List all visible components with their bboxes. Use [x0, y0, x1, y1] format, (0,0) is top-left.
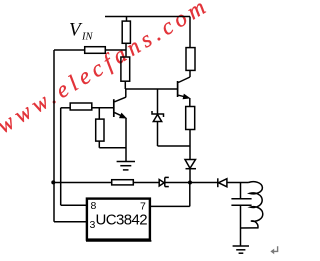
wire pin8 lead	[61, 204, 87, 206]
wire Q1 emitter down	[125, 118, 127, 162]
wire stub top rail to R1	[126, 17, 128, 21]
svg-text:8: 8	[91, 200, 97, 212]
resistor R2	[121, 57, 130, 81]
node junction dot output	[188, 181, 192, 185]
wire R6 to emitter	[99, 147, 126, 149]
svg-text:www.elecfans.com: www.elecfans.com	[0, 0, 210, 138]
resistor R6	[96, 108, 104, 148]
wire R2 bottom stub	[124, 82, 126, 89]
resistor R3	[186, 48, 195, 71]
wire R1 to R2	[125, 44, 127, 57]
resistor R7	[112, 180, 134, 185]
wire left rail	[53, 50, 55, 222]
resistor R4	[186, 107, 195, 130]
resistor R5	[70, 103, 92, 110]
resistor R1	[122, 21, 130, 43]
wire D1 to D2	[165, 182, 218, 184]
capacitor C1	[231, 183, 251, 246]
wire top-right corner down to R3	[189, 17, 191, 48]
transistor Q2	[178, 77, 190, 106]
ground G2	[233, 246, 249, 253]
resistor R-vin	[85, 47, 106, 54]
ground G1	[117, 162, 135, 170]
wire top rail	[105, 16, 190, 18]
diode D2	[218, 178, 227, 187]
op-amp U1 UC3842 box	[87, 199, 150, 240]
wire R3 to Q2 collector	[189, 71, 191, 77]
wire D2 to coil	[227, 182, 249, 184]
transistor Q1	[114, 89, 126, 118]
wire sense rail left	[54, 182, 111, 184]
wire VIN left segment	[54, 49, 84, 51]
diode D1	[159, 177, 169, 186]
zener ZD	[152, 89, 164, 146]
wire pin7 lead	[150, 205, 190, 207]
op-amp U1 box bottom shadow	[86, 240, 151, 242]
diode D3	[185, 146, 196, 183]
wire Q1/Q2 base rail	[125, 88, 177, 90]
node junction dot left rail	[51, 180, 55, 184]
svg-text:V: V	[69, 20, 83, 41]
wire R7 to D1	[134, 182, 159, 184]
wire pin3 lead	[54, 221, 86, 223]
wire VIN right segment	[106, 49, 127, 51]
wire R4 bottom stub	[189, 130, 191, 146]
return mark	[270, 246, 277, 254]
wire vref rail	[60, 108, 62, 205]
wire R5 to Q1 base	[93, 107, 114, 109]
wire pin7 riser	[189, 183, 191, 207]
svg-text:IN: IN	[81, 31, 93, 42]
svg-text:UC3842: UC3842	[96, 212, 148, 229]
inductor L1	[241, 182, 263, 228]
wire zener to R4 bottom	[158, 145, 191, 147]
wire rail to R5	[61, 107, 70, 109]
